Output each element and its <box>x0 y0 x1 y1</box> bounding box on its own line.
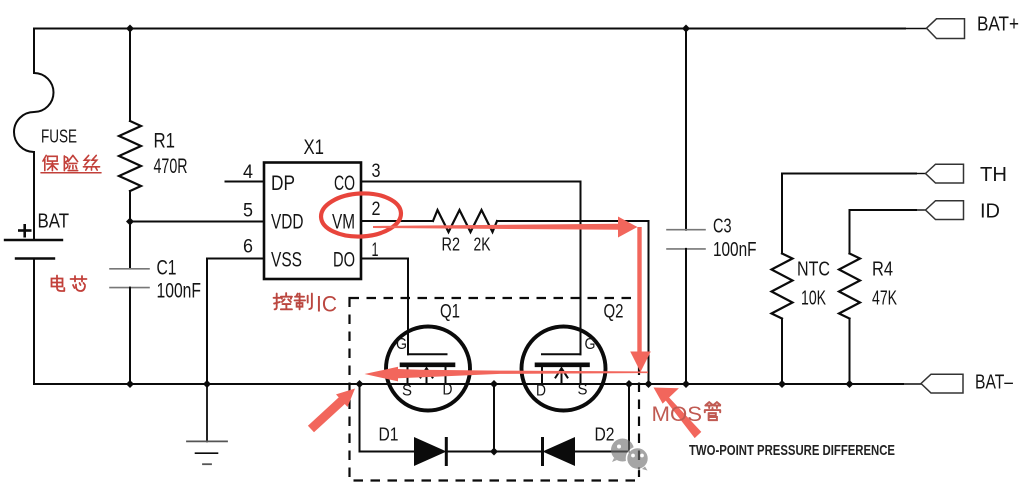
wire battery to bottom rail <box>33 259 35 385</box>
svg-text:D: D <box>443 382 453 399</box>
wire top rail <box>34 28 905 30</box>
svg-text:2K: 2K <box>474 235 491 255</box>
svg-text:2: 2 <box>372 199 381 220</box>
svg-text:BAT–: BAT– <box>975 372 1014 394</box>
wire Q2 gate entry <box>580 327 582 354</box>
svg-text:D1: D1 <box>379 425 399 445</box>
red ellipse around VM pin <box>320 191 402 238</box>
junction VM net rail <box>645 380 653 388</box>
wire DP stub pin4 <box>226 181 265 183</box>
wire ground drop <box>206 384 208 441</box>
wire VSS pin6 <box>207 258 264 260</box>
MOSFET dashed box <box>350 298 640 481</box>
wire VDD net <box>130 221 264 223</box>
svg-text:5: 5 <box>243 201 253 222</box>
wire DO down to Q1 gate <box>407 259 409 332</box>
svg-text:100nF: 100nF <box>157 280 202 303</box>
transistor Q2 internals <box>542 353 581 355</box>
wire D2 right <box>575 451 629 453</box>
junction ground tap rail <box>203 380 211 388</box>
svg-text:VDD: VDD <box>271 211 304 234</box>
red text 控制IC (control IC) <box>274 292 338 317</box>
junction NTC bottom rail <box>778 380 786 388</box>
wire DO pin1 <box>361 258 408 260</box>
wire TH net <box>782 174 916 254</box>
svg-text:BAT: BAT <box>38 211 70 233</box>
wire NTC bottom <box>781 319 783 385</box>
wire left vertical to fuse <box>33 29 35 74</box>
svg-text:6: 6 <box>243 237 253 258</box>
junction R1 top rail <box>126 25 134 33</box>
svg-text:Q2: Q2 <box>604 302 624 323</box>
junction C3 top rail <box>682 25 690 33</box>
watermark wechat icon <box>611 439 649 471</box>
svg-text:CO: CO <box>334 172 355 195</box>
IC X1 body <box>264 163 361 280</box>
wire R1 top <box>129 29 131 122</box>
wire center diode tap <box>493 384 495 452</box>
resistor R4 <box>839 254 860 319</box>
wire fuse to battery <box>33 152 35 240</box>
wire C3 bottom <box>685 249 687 384</box>
svg-text:DP: DP <box>271 172 295 195</box>
junction C3 bottom rail <box>682 380 690 388</box>
svg-text:FUSE: FUSE <box>41 127 77 147</box>
svg-text:NTC: NTC <box>797 259 830 281</box>
wire CO down to Q2 gate <box>580 182 582 355</box>
transistor Q1 circle <box>386 327 470 411</box>
svg-text:3: 3 <box>372 161 381 182</box>
red arrow right along VM net <box>373 217 638 238</box>
svg-text:S: S <box>578 382 588 399</box>
transistor Q2 circle <box>522 327 606 411</box>
junction R4 bottom rail <box>846 380 854 388</box>
wire C3 top <box>685 29 687 230</box>
junction R1/C1/VDD node <box>126 218 134 226</box>
ground <box>187 440 227 442</box>
junction C1 bottom rail <box>126 380 134 388</box>
svg-text:C1: C1 <box>157 256 177 279</box>
svg-text:4: 4 <box>243 162 253 183</box>
resistor R2 2K <box>433 210 497 232</box>
red arrow diagonal up-left at right of MOS box (MOS annotation) <box>654 388 702 439</box>
svg-text:DO: DO <box>333 249 355 272</box>
wire ID net <box>850 210 917 254</box>
wire BAT+ lead <box>905 28 926 30</box>
battery plus sign <box>18 224 32 238</box>
wire D1 branch left <box>360 384 415 452</box>
svg-text:100nF: 100nF <box>713 239 757 261</box>
svg-text:D: D <box>536 383 546 400</box>
connector ID <box>926 201 964 220</box>
junction D1-D2 node <box>490 448 498 456</box>
wire VSS down to rail <box>206 259 208 385</box>
svg-text:1: 1 <box>372 240 379 261</box>
red arrow left across MOSFETs <box>365 367 649 382</box>
svg-text:MOS: MOS <box>652 403 703 426</box>
junction D2 branch rail <box>625 380 633 388</box>
wire bottom rail BAT- <box>34 383 903 385</box>
red arrow down to BAT- rail <box>630 227 651 372</box>
svg-text:C3: C3 <box>713 216 732 238</box>
fuse FUSE <box>14 73 54 152</box>
connector BAT- <box>921 374 963 393</box>
svg-text:ID: ID <box>980 201 1000 223</box>
capacitor C3 <box>667 229 705 231</box>
red text MOS管 <box>652 402 721 426</box>
wire VM pin2 <box>361 220 433 222</box>
red text 电芯 (battery cell) <box>52 276 87 292</box>
svg-text:S: S <box>402 383 412 400</box>
wire D1 to D2 <box>447 451 543 453</box>
wire C1 bottom <box>129 288 131 384</box>
svg-text:47K: 47K <box>872 288 897 310</box>
diode D2 <box>541 437 575 466</box>
connector BAT+ <box>927 19 965 39</box>
svg-text:R1: R1 <box>154 130 176 153</box>
svg-text:BAT+: BAT+ <box>977 14 1019 36</box>
wire R2 right <box>497 220 649 222</box>
junction center diode tap rail <box>490 380 498 388</box>
transistor Q1 internals <box>408 353 447 355</box>
svg-text:IC: IC <box>316 292 337 317</box>
capacitor C1 <box>110 268 149 270</box>
svg-text:470R: 470R <box>154 155 188 178</box>
svg-text:R4: R4 <box>872 259 893 281</box>
wire Q1 gate entry <box>407 330 409 354</box>
battery BAT <box>5 239 62 241</box>
svg-text:TWO-POINT PRESSURE DIFFERENCE: TWO-POINT PRESSURE DIFFERENCE <box>689 442 895 459</box>
resistor NTC <box>772 254 793 319</box>
diode D1 <box>414 437 448 466</box>
svg-text:D2: D2 <box>595 425 615 445</box>
wire D2 branch up <box>628 384 630 452</box>
wire CO pin3 <box>361 181 581 183</box>
svg-text:TH: TH <box>980 164 1007 186</box>
svg-text:VM: VM <box>332 211 355 234</box>
wire R1 bottom to C1 <box>129 191 131 269</box>
junction D1 branch rail <box>356 380 364 388</box>
resistor R1 <box>119 121 141 191</box>
svg-text:Q1: Q1 <box>440 302 460 323</box>
svg-text:10K: 10K <box>801 288 826 310</box>
red text 保险丝 (fuse) with underline <box>41 155 101 172</box>
wire R4 bottom <box>849 319 851 385</box>
wire bottom rail through MOSFETs <box>350 383 649 385</box>
connector TH <box>926 164 964 183</box>
svg-text:R2: R2 <box>442 235 461 255</box>
svg-text:X1: X1 <box>304 136 325 159</box>
wire VM down to rail <box>648 221 650 384</box>
svg-text:VSS: VSS <box>271 249 302 272</box>
svg-text:G: G <box>396 336 407 353</box>
svg-text:G: G <box>585 336 596 353</box>
red arrow diagonal up-right at left of MOS box <box>308 389 355 433</box>
